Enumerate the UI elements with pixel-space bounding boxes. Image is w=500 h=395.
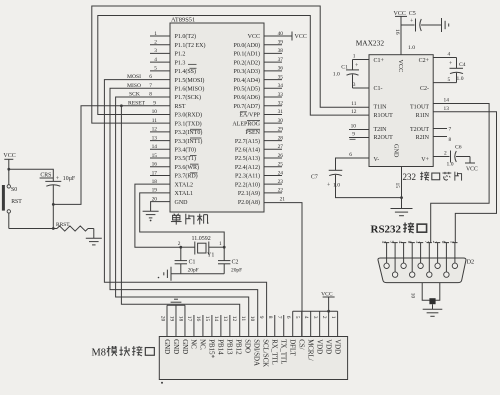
svg-text:11: 11	[152, 118, 157, 124]
switch S0 RST	[3, 169, 22, 228]
svg-text:SDI/SDA: SDI/SDA	[253, 339, 260, 366]
power VCC at C6	[465, 157, 478, 173]
max232 pin2 V+ wire	[433, 151, 449, 157]
svg-text:P2.4(A12): P2.4(A12)	[235, 164, 260, 171]
svg-text:7: 7	[149, 83, 152, 89]
svg-text:6: 6	[440, 241, 446, 244]
max232 pin1 stub	[353, 54, 370, 60]
svg-text:P2.5(A13): P2.5(A13)	[235, 155, 260, 162]
svg-text:36: 36	[278, 66, 284, 72]
module connector body	[159, 337, 347, 380]
ground at mcu pin 20	[143, 211, 159, 221]
svg-text:P1.5(MOSI): P1.5(MOSI)	[175, 77, 205, 84]
wire MOSI mcu pin6 to module SCL/SCK	[104, 74, 266, 336]
resistor RRST	[56, 222, 94, 231]
svg-text:C7: C7	[311, 175, 318, 181]
svg-text:C2+: C2+	[419, 58, 430, 64]
svg-text:SCL/SCK: SCL/SCK	[262, 339, 269, 367]
wire SCK mcu pin8 to module SDO	[116, 92, 249, 337]
capacitor C6 1.0	[447, 145, 471, 168]
svg-text:C4: C4	[459, 62, 466, 68]
svg-text:P2.3(A11): P2.3(A11)	[235, 173, 260, 180]
ground right of C5	[442, 18, 449, 32]
label RS232接口 (RS232 port)	[371, 223, 427, 236]
svg-text:35: 35	[278, 74, 284, 80]
svg-text:C6: C6	[455, 145, 462, 151]
svg-text:PSEN: PSEN	[245, 130, 260, 136]
svg-text:12: 12	[231, 316, 237, 322]
svg-text:VCC: VCC	[466, 167, 478, 173]
svg-text:33: 33	[278, 92, 284, 98]
svg-text:P1.3: P1.3	[175, 60, 186, 66]
svg-text:9: 9	[389, 241, 395, 244]
svg-text:37: 37	[278, 57, 284, 63]
svg-text:AT89S51: AT89S51	[171, 17, 195, 24]
connector D2 shield bracket	[410, 283, 440, 310]
svg-text:10µF: 10µF	[63, 176, 76, 182]
svg-text:232: 232	[403, 172, 417, 182]
svg-text:+: +	[449, 61, 452, 67]
wire RXD mcu pin10 over top to max232 R1OUT	[98, 16, 369, 116]
svg-text:15: 15	[204, 316, 210, 322]
svg-text:+: +	[355, 63, 358, 69]
max232 pin5 stub	[433, 77, 456, 83]
svg-text:VCC: VCC	[295, 34, 307, 40]
max232 pin7 stub	[433, 127, 451, 133]
svg-text:CS/: CS/	[297, 339, 304, 349]
ground above module GND pins	[167, 299, 185, 305]
svg-text:VCC: VCC	[248, 34, 260, 40]
svg-text:R2OUT: R2OUT	[374, 135, 394, 141]
svg-text:P3.4(T0): P3.4(T0)	[175, 147, 197, 154]
svg-text:P0.5(AD5): P0.5(AD5)	[234, 85, 261, 92]
svg-text:SCK: SCK	[129, 92, 140, 98]
svg-text:C1+: C1+	[374, 58, 385, 64]
svg-text:XTAL1: XTAL1	[175, 191, 194, 197]
svg-text:P0.4(AD4): P0.4(AD4)	[234, 77, 261, 84]
svg-text:P0.1(AD1): P0.1(AD1)	[234, 51, 261, 58]
svg-text:9: 9	[352, 132, 355, 138]
ground at max232 pin15	[391, 209, 413, 216]
svg-text:P1.2: P1.2	[175, 52, 186, 58]
svg-text:P1.6(MISO): P1.6(MISO)	[175, 85, 205, 92]
power VCC tag at mcu pin 40	[278, 31, 307, 41]
svg-text:16: 16	[152, 162, 158, 168]
svg-text:TX_TTL: TX_TTL	[280, 339, 287, 364]
svg-text:2: 2	[154, 40, 157, 46]
crystal Y1	[181, 236, 224, 259]
svg-text:PB14: PB14	[217, 339, 224, 355]
svg-text:P0.0(AD0): P0.0(AD0)	[234, 42, 261, 49]
svg-text:RS232: RS232	[371, 223, 402, 235]
svg-text:P0.7(AD7): P0.7(AD7)	[234, 103, 261, 110]
ground at RRST	[86, 238, 102, 245]
svg-text:RST: RST	[11, 199, 22, 205]
svg-text:GND: GND	[181, 339, 188, 354]
svg-text:MOSI: MOSI	[127, 74, 141, 80]
svg-text:25: 25	[278, 162, 284, 168]
svg-text:3: 3	[154, 48, 157, 54]
svg-text:R2IN: R2IN	[416, 135, 430, 141]
svg-text:12: 12	[152, 127, 158, 133]
svg-text:2: 2	[178, 241, 181, 247]
svg-text:17: 17	[186, 316, 192, 322]
svg-text:16: 16	[195, 316, 201, 322]
wire VCC to capacitor CRS	[7, 168, 53, 182]
svg-text:4: 4	[154, 57, 157, 63]
wire RRST to ground	[93, 229, 95, 239]
svg-text:10: 10	[351, 123, 357, 129]
wire RESET mcu pin9 branch to module PB12 and reset circuit	[52, 100, 240, 336]
svg-text:34: 34	[278, 83, 284, 89]
max232 pin6 V- wire	[336, 152, 370, 170]
svg-text:P2.0(A8): P2.0(A8)	[238, 199, 260, 206]
svg-text:10: 10	[152, 109, 158, 115]
wire mcu pin20 GND to ground	[151, 196, 170, 211]
svg-text:17: 17	[152, 170, 158, 176]
mcu left pin stubs 1-5 and 12-17	[150, 31, 170, 176]
svg-text:14: 14	[152, 144, 158, 150]
svg-text:1: 1	[154, 31, 157, 37]
svg-text:1.0: 1.0	[408, 45, 415, 51]
svg-text:6: 6	[349, 152, 352, 158]
svg-text:NC: NC	[190, 339, 197, 349]
connector D2 DB9 shell	[378, 258, 474, 283]
svg-text:VCC: VCC	[397, 60, 404, 73]
capacitor C2 20pF	[218, 247, 242, 274]
svg-text:GND: GND	[175, 200, 189, 206]
svg-text:PB13: PB13	[226, 339, 233, 355]
power VCC at module VDD	[321, 291, 335, 311]
svg-text:1.0: 1.0	[447, 161, 454, 167]
svg-text:15: 15	[152, 153, 158, 159]
svg-text:P3.3(INT1): P3.3(INT1)	[175, 138, 203, 145]
svg-text:8: 8	[149, 92, 152, 98]
svg-text:RX_TTL: RX_TTL	[271, 339, 278, 365]
svg-text:PB15*: PB15*	[208, 339, 215, 358]
svg-text:14: 14	[444, 97, 450, 103]
svg-text:VDD: VDD	[333, 339, 340, 354]
svg-text:R1IN: R1IN	[416, 113, 430, 119]
svg-text:GND: GND	[393, 144, 400, 158]
svg-text:4: 4	[448, 51, 451, 57]
svg-text:R1OUT: R1OUT	[374, 113, 394, 119]
svg-text:T2IN: T2IN	[374, 127, 388, 133]
svg-text:P3.7(RD): P3.7(RD)	[175, 173, 198, 180]
svg-text:10: 10	[249, 316, 255, 322]
svg-text:11: 11	[351, 101, 356, 107]
svg-text:12: 12	[351, 109, 357, 115]
svg-text:P1.0(T2): P1.0(T2)	[175, 33, 197, 40]
svg-text:T1OUT: T1OUT	[410, 105, 429, 111]
svg-text:19: 19	[168, 316, 174, 322]
svg-text:SDO: SDO	[244, 339, 251, 353]
svg-text:M8: M8	[92, 347, 106, 358]
svg-text:DFLT: DFLT	[289, 339, 296, 356]
svg-text:MAX232: MAX232	[356, 39, 385, 48]
svg-text:29: 29	[278, 127, 284, 133]
wire MISO mcu pin7 to module SDI/SDA	[110, 83, 258, 337]
svg-text:5: 5	[154, 66, 157, 72]
svg-text:8: 8	[449, 137, 452, 143]
svg-text:7: 7	[449, 127, 452, 133]
svg-text:P1.7(SCK): P1.7(SCK)	[175, 94, 202, 101]
max232 pin4 stub	[433, 51, 456, 57]
svg-text:23: 23	[278, 179, 284, 185]
svg-text:1: 1	[449, 241, 455, 244]
mcu right pin stubs 40-22	[264, 36, 292, 194]
node reset junction	[9, 227, 57, 230]
svg-text:6: 6	[285, 316, 291, 319]
svg-text:P0.3(AD3): P0.3(AD3)	[234, 68, 261, 75]
svg-text:5: 5	[448, 77, 451, 83]
wire module GND pins to ground bar	[167, 305, 185, 336]
svg-text:V-: V-	[374, 157, 380, 163]
capacitor CRS 10uF	[40, 173, 76, 229]
svg-text:1.0: 1.0	[457, 76, 464, 82]
svg-text:1.0: 1.0	[333, 71, 340, 77]
label M8模块接口 (M8 module port)	[92, 346, 155, 358]
label 232接口芯片 (232 interface chip)	[403, 172, 462, 182]
max232 U2 body	[356, 39, 434, 167]
svg-text:8: 8	[406, 241, 412, 244]
svg-text:VCC: VCC	[321, 291, 333, 297]
svg-text:VCC: VCC	[3, 153, 15, 159]
svg-text:C5: C5	[409, 11, 416, 17]
svg-text:D2: D2	[467, 259, 475, 266]
svg-text:20pF: 20pF	[188, 268, 199, 274]
svg-text:13: 13	[444, 106, 450, 112]
svg-text:5: 5	[294, 316, 300, 319]
svg-text:38: 38	[278, 48, 284, 54]
svg-text:1: 1	[353, 54, 356, 60]
svg-text:20: 20	[159, 316, 165, 322]
mcu U1 pin name texts	[175, 33, 261, 206]
svg-text:T2OUT: T2OUT	[410, 127, 429, 133]
svg-text:7: 7	[423, 241, 429, 244]
max232 pin9 stub	[349, 132, 369, 140]
svg-text:MISO: MISO	[127, 83, 141, 89]
wire module VDD bus	[293, 310, 338, 337]
max232 pin name texts	[374, 58, 430, 163]
svg-text:40: 40	[278, 31, 284, 37]
svg-text:11: 11	[240, 316, 246, 322]
svg-text:P1.4(SS): P1.4(SS)	[175, 68, 197, 75]
svg-text:10: 10	[410, 293, 416, 299]
module pin numbers	[159, 316, 336, 322]
svg-text:V+: V+	[421, 157, 429, 163]
svg-text:21: 21	[280, 197, 286, 203]
svg-text:VDD: VDD	[315, 339, 322, 354]
svg-text:C1-: C1-	[374, 86, 383, 92]
svg-text:T1IN: T1IN	[374, 105, 388, 111]
wire crystal cap ground bus	[171, 273, 224, 275]
svg-text:3: 3	[312, 316, 318, 319]
svg-text:P2.7(A15): P2.7(A15)	[235, 138, 260, 145]
max232 pin16 VCC wire	[394, 11, 416, 55]
svg-text:20: 20	[152, 196, 158, 202]
svg-text:1: 1	[330, 316, 336, 319]
svg-text:P3.0(RXD): P3.0(RXD)	[175, 112, 203, 119]
svg-text:3: 3	[414, 241, 420, 244]
svg-text:39: 39	[278, 40, 284, 46]
svg-text:2: 2	[444, 151, 447, 157]
svg-text:4: 4	[303, 316, 309, 319]
svg-text:P2.6(A14): P2.6(A14)	[235, 147, 260, 154]
svg-text:+: +	[410, 18, 413, 24]
svg-text:C1: C1	[341, 65, 348, 71]
power VCC at reset circuit	[3, 153, 15, 169]
wire T1OUT max232 pin14 to DB9 pin7	[431, 97, 489, 242]
svg-text:13: 13	[222, 316, 228, 322]
wire R1IN max232 pin13 to DB9 pin1	[433, 106, 496, 243]
node 1 crystal right	[219, 241, 226, 249]
svg-text:EA/VPP: EA/VPP	[239, 113, 260, 119]
svg-text:P0.2(AD2): P0.2(AD2)	[234, 59, 261, 66]
svg-text:C2: C2	[232, 260, 239, 266]
svg-text:P2.2(A10): P2.2(A10)	[235, 181, 260, 188]
node 2 crystal left	[178, 241, 182, 248]
svg-text:+: +	[327, 183, 330, 189]
svg-text:8: 8	[267, 316, 273, 319]
mcu U1 AT89S51 body	[170, 17, 264, 213]
svg-text:+: +	[56, 176, 60, 182]
svg-text:24: 24	[278, 170, 284, 176]
svg-text:RESET: RESET	[128, 100, 146, 106]
capacitor C1 1.0 at max232	[333, 60, 359, 89]
svg-text:P3.2(INT0): P3.2(INT0)	[175, 129, 203, 136]
svg-text:ALEPROG: ALEPROG	[232, 121, 260, 127]
svg-text:28: 28	[278, 135, 284, 141]
svg-text:MCRL/: MCRL/	[306, 339, 313, 361]
svg-text:27: 27	[278, 144, 284, 150]
max232 pin15 GND wire	[394, 167, 403, 209]
svg-text:26: 26	[278, 153, 284, 159]
max232 pin8 stub	[433, 137, 451, 143]
wire XTAL2 mcu pin18 to crystal node 2	[135, 179, 181, 247]
svg-text:32: 32	[278, 101, 284, 107]
svg-text:VDD: VDD	[324, 339, 331, 354]
svg-text:Y1: Y1	[207, 253, 214, 259]
svg-text:C1: C1	[189, 260, 196, 266]
svg-text:4: 4	[397, 241, 403, 244]
svg-text:PB12: PB12	[235, 339, 242, 355]
capacitor C4 1.0 at max232	[449, 58, 466, 83]
svg-text:P3.6(WR): P3.6(WR)	[175, 164, 200, 171]
svg-text:2: 2	[431, 241, 437, 244]
capacitor C7 1.0	[311, 170, 402, 197]
capacitor C5 1.0	[401, 11, 442, 32]
ground at D2 shield	[423, 309, 443, 316]
svg-text:9: 9	[258, 316, 264, 319]
svg-text:7: 7	[276, 316, 282, 319]
svg-text:2: 2	[321, 316, 327, 319]
svg-text:P1.1(T2 EX): P1.1(T2 EX)	[175, 42, 206, 49]
svg-text:9: 9	[153, 100, 156, 106]
svg-text:13: 13	[152, 135, 158, 141]
max232 pin3 stub	[353, 82, 370, 88]
wire TXD mcu pin11 over top to max232 T1IN	[92, 6, 369, 124]
svg-text:30: 30	[278, 118, 284, 124]
svg-text:15: 15	[394, 183, 400, 189]
svg-text:5: 5	[380, 241, 386, 244]
svg-text:3: 3	[353, 82, 356, 88]
wire XTAL1 mcu pin19 to crystal node 1	[140, 188, 225, 248]
svg-text:GND: GND	[172, 339, 179, 354]
module corner mark	[161, 382, 163, 384]
svg-text:XTAL2: XTAL2	[175, 182, 194, 188]
label 单片机 (microcontroller)	[171, 214, 208, 225]
svg-text:19: 19	[152, 188, 158, 194]
svg-text:11.0592: 11.0592	[192, 236, 211, 242]
svg-text:GND: GND	[163, 339, 170, 354]
svg-text:14: 14	[213, 316, 219, 322]
svg-text:S0: S0	[11, 187, 17, 193]
svg-text:6: 6	[149, 74, 152, 80]
svg-text:P3.1(TXD): P3.1(TXD)	[175, 120, 202, 127]
module plain pin stubs	[194, 315, 284, 337]
svg-text:16: 16	[394, 29, 400, 35]
svg-text:VCC: VCC	[394, 11, 406, 17]
capacitor C1 20pF	[175, 247, 199, 274]
svg-text:P3.5(T1): P3.5(T1)	[175, 155, 197, 162]
connector D2 pins and numbers	[380, 241, 457, 278]
svg-text:C2-: C2-	[420, 86, 429, 92]
svg-text:18: 18	[152, 179, 158, 185]
svg-text:NC.: NC.	[199, 339, 206, 351]
wire mcu pin21 P2.0 to module CS/	[264, 197, 302, 337]
svg-text:P2.1(A9): P2.1(A9)	[238, 190, 260, 197]
svg-text:1: 1	[219, 241, 222, 247]
svg-text:1.0: 1.0	[333, 183, 340, 189]
module pin name texts	[163, 339, 341, 367]
svg-text:20pF: 20pF	[231, 268, 242, 274]
ground at crystal caps	[158, 267, 171, 281]
max232 pin10 stub	[349, 123, 369, 129]
svg-text:RST: RST	[175, 104, 186, 110]
svg-text:31: 31	[278, 109, 284, 115]
svg-text:18: 18	[177, 316, 183, 322]
svg-text:P0.6(AD6): P0.6(AD6)	[234, 94, 261, 101]
svg-text:22: 22	[278, 188, 284, 194]
